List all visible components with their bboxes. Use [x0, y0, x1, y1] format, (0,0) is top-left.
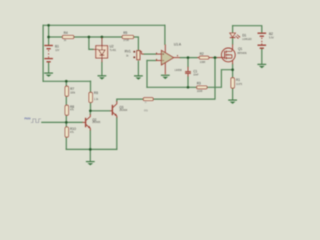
svg-text:R7: R7: [70, 87, 74, 91]
svg-text:R4: R4: [64, 31, 68, 35]
svg-text:LUMLED: LUMLED: [242, 39, 252, 41]
svg-text:R8: R8: [70, 105, 74, 109]
svg-text:12V: 12V: [55, 50, 60, 52]
svg-text:R6: R6: [94, 91, 98, 95]
svg-text:100R: 100R: [200, 62, 206, 64]
svg-text:LM358: LM358: [175, 70, 183, 72]
svg-text:B1: B1: [55, 45, 59, 49]
svg-text:270R: 270R: [123, 40, 129, 42]
svg-text:2N3904: 2N3904: [119, 110, 128, 112]
svg-text:100k: 100k: [70, 93, 76, 95]
svg-text:PWM: PWM: [24, 118, 30, 121]
svg-text:B2: B2: [269, 32, 273, 36]
svg-text:10nF: 10nF: [193, 75, 199, 77]
svg-text:R9: R9: [144, 109, 148, 113]
svg-text:R1: R1: [236, 78, 240, 82]
svg-text:2N3905: 2N3905: [92, 122, 101, 124]
svg-text:C1: C1: [193, 70, 197, 74]
svg-text:IRF540N: IRF540N: [237, 53, 247, 55]
svg-text:U2: U2: [110, 45, 114, 49]
svg-text:U1:A: U1:A: [174, 43, 182, 47]
svg-text:R3: R3: [197, 81, 201, 85]
svg-text:5.5V: 5.5V: [269, 38, 274, 40]
svg-text:RV1: RV1: [125, 49, 131, 53]
svg-text:D1: D1: [242, 33, 246, 37]
svg-text:Q3: Q3: [119, 105, 123, 109]
svg-text:TL431: TL431: [110, 50, 117, 52]
svg-text:100R: 100R: [197, 91, 203, 93]
svg-text:R2: R2: [200, 52, 204, 56]
svg-text:0.075: 0.075: [236, 84, 243, 86]
svg-text:Q1: Q1: [238, 47, 242, 51]
svg-text:R10: R10: [70, 127, 76, 131]
svg-text:R5: R5: [123, 31, 127, 35]
